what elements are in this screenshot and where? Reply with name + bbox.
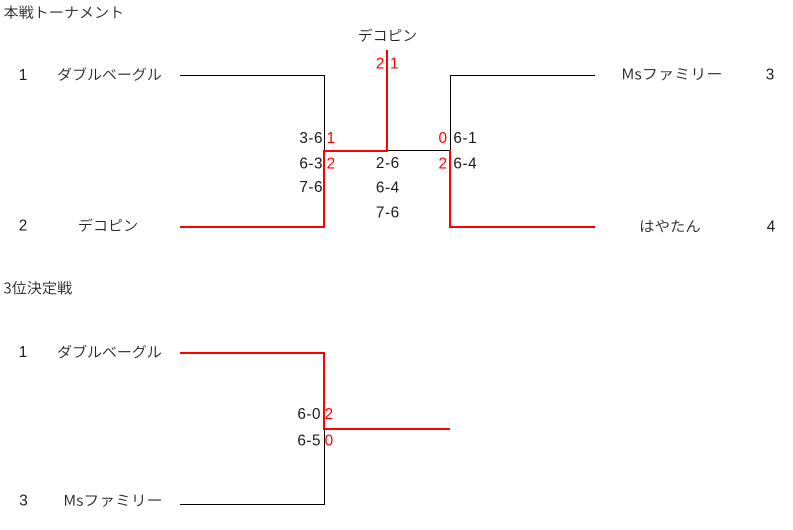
wire: final horizontal to semifinal2 (black) (388, 150, 451, 151)
svg-text:6-0: 6-0 (297, 406, 320, 423)
wire: 3rd-place left vertical lower (black) (324, 430, 325, 505)
wire: right bracket vertical lower (red) (449, 150, 451, 228)
svg-text:1: 1 (19, 344, 28, 361)
wire: player2 bottom horizontal (red) (180, 226, 325, 228)
svg-text:6-4: 6-4 (453, 156, 477, 173)
svg-text:6-3: 6-3 (299, 156, 322, 173)
svg-text:2: 2 (19, 218, 28, 235)
wire: player4 bottom horizontal (red) (449, 226, 595, 228)
wire: left bracket vertical upper (black) (324, 75, 325, 150)
svg-text:3: 3 (19, 493, 28, 510)
svg-text:2: 2 (327, 156, 336, 173)
wire: left bracket vertical lower (red) (323, 150, 325, 228)
title: 3位決定戦 (3rd place match) (4, 281, 72, 295)
svg-text:2-6: 2-6 (376, 155, 399, 172)
wire: right bracket vertical upper (black) (450, 75, 451, 150)
wire: 3rd-place left vertical upper (red) (323, 352, 325, 430)
wire: player1 top horizontal (black) (180, 75, 325, 76)
wire: champion vertical line (red) (386, 50, 388, 152)
wire: 3rd-place player1 horizontal (red) (180, 352, 325, 354)
svg-text:1: 1 (19, 67, 28, 84)
svg-text:4: 4 (767, 218, 776, 235)
svg-text:6-1: 6-1 (453, 130, 476, 147)
name: player2 デコピン (79, 218, 137, 231)
wire: player3 top horizontal (black) (450, 75, 595, 76)
svg-text:2: 2 (376, 55, 385, 72)
name: player4 はやたん (641, 220, 700, 233)
name: 3rd-place ダブルベーグル (58, 345, 161, 359)
svg-text:0: 0 (438, 130, 447, 147)
svg-text:6-4: 6-4 (376, 179, 400, 196)
svg-text:0: 0 (325, 432, 334, 449)
svg-text:1: 1 (327, 130, 336, 147)
label: champion デコピン (359, 28, 416, 41)
svg-text:1: 1 (390, 55, 399, 72)
name: player1 ダブルベーグル (58, 67, 161, 81)
wire: semifinal1 winner horizontal to final (red) (323, 150, 386, 152)
title: 本戦トーナメント (main tournament) (4, 5, 122, 18)
svg-text:6-5: 6-5 (297, 432, 320, 449)
wire: 3rd-place winner horizontal (red) (323, 428, 450, 430)
svg-text:3-6: 3-6 (299, 130, 322, 147)
svg-text:2: 2 (325, 406, 334, 423)
wire: 3rd-place player3 horizontal (black) (180, 504, 325, 505)
svg-text:2: 2 (438, 156, 447, 173)
svg-text:7-6: 7-6 (376, 204, 399, 221)
name: 3rd-place Msファミリー (65, 495, 161, 507)
name: player3 Msファミリー (623, 68, 721, 80)
svg-text:3: 3 (766, 66, 775, 83)
svg-text:7-6: 7-6 (299, 179, 322, 196)
